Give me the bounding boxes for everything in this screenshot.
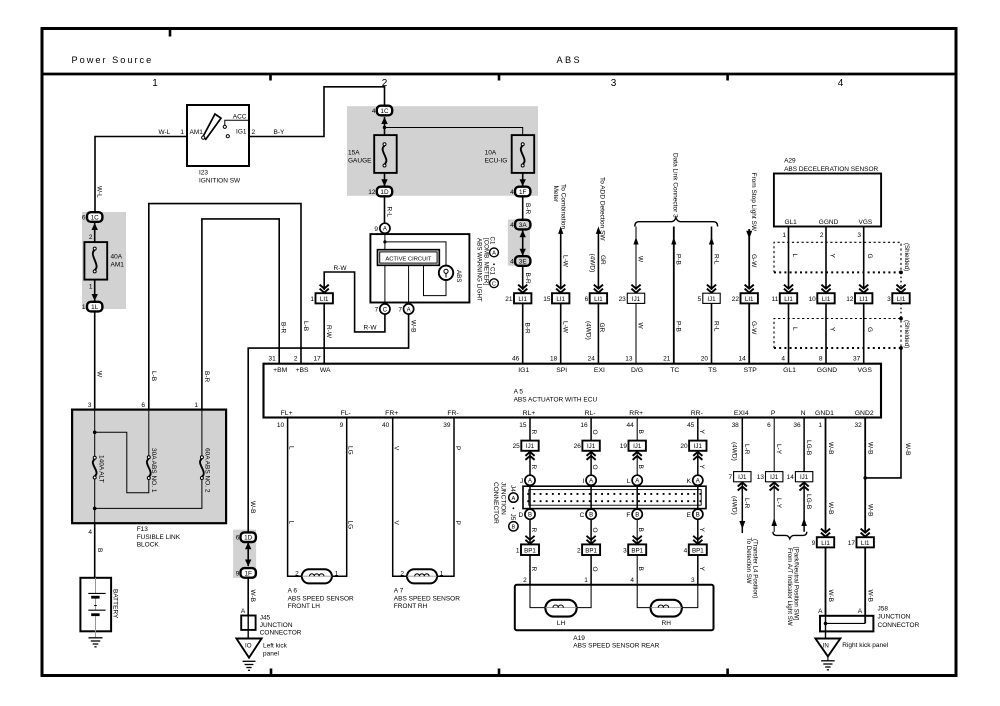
svg-text:W-B: W-B (867, 442, 874, 455)
svg-text:N: N (801, 410, 806, 417)
svg-text:RL-: RL- (585, 410, 596, 417)
svg-text:19: 19 (620, 443, 628, 450)
svg-text:4: 4 (88, 529, 92, 536)
arrow into 1L (92, 294, 98, 301)
arrows between 1D and 1F lower (245, 542, 251, 549)
svg-text:L-R: L-R (743, 444, 750, 455)
brace for Data Link Connector 3 (635, 218, 718, 227)
wire L LI1 to GL1 pin (788, 303, 790, 363)
svg-text:C: C (580, 512, 585, 519)
svg-text:A: A (589, 479, 593, 485)
wire W-B LI1 to J58 inner (864, 547, 866, 623)
circle connector A meter bottom (404, 304, 414, 314)
svg-text:LI1: LI1 (822, 296, 831, 303)
svg-text:P: P (454, 446, 461, 450)
bottom border ticks (271, 669, 728, 676)
svg-text:[Park/Neutral Position SW]: [Park/Neutral Position SW] (793, 547, 800, 621)
svg-text:GR: GR (599, 255, 606, 265)
svg-text:A: A (528, 479, 532, 485)
svg-text:RR+: RR+ (629, 410, 643, 417)
svg-text:4: 4 (781, 355, 785, 362)
svg-text:Y: Y (829, 327, 836, 332)
header divider line (42, 73, 956, 76)
connector 1D lower (241, 532, 256, 542)
svg-text:GGND: GGND (819, 219, 839, 226)
arrow into 1D lower (245, 532, 251, 539)
F13 internal wire pin3 to fuse 140A (94, 410, 96, 457)
svg-text:Y: Y (698, 430, 705, 435)
svg-text:ABS SPEED SENSOR: ABS SPEED SENSOR (288, 595, 354, 602)
svg-text:6: 6 (585, 296, 589, 303)
svg-text:8: 8 (819, 355, 823, 362)
ignition switch lever (203, 114, 221, 139)
svg-text:G: G (866, 327, 873, 332)
svg-text:BP1: BP1 (585, 547, 597, 554)
svg-text:3: 3 (611, 78, 617, 89)
connector 1D section2 (377, 187, 392, 197)
svg-text:GAUGE: GAUGE (348, 158, 372, 165)
svg-text:From A/T Indicator Light SW: From A/T Indicator Light SW (786, 548, 793, 626)
ground triangle IN right kick panel (815, 639, 840, 657)
svg-text:A: A (696, 479, 700, 485)
svg-text:FUSIBLE LINK: FUSIBLE LINK (137, 534, 181, 541)
wire LG FL- to sensor (332, 418, 347, 577)
svg-text:18: 18 (550, 355, 558, 362)
arrows between 3A and 3E (520, 230, 526, 237)
svg-text:A 7: A 7 (394, 588, 404, 595)
svg-text:R-L: R-L (386, 207, 393, 218)
svg-text:FRONT LH: FRONT LH (288, 603, 321, 610)
svg-text:B-R: B-R (524, 323, 531, 335)
chevron into LI1 section2 (320, 285, 329, 293)
svg-text:ABS ACTUATOR WITH ECU: ABS ACTUATOR WITH ECU (514, 397, 598, 404)
connector 1F lower (241, 568, 256, 578)
wire W IJ1 to D/G pin (635, 303, 637, 363)
svg-text:(4WD): (4WD) (585, 321, 592, 340)
svg-text:O: O (591, 465, 598, 470)
F13 fuse 60A ABS NO.2 (200, 456, 203, 459)
ground triangle IO left kick panel (236, 639, 261, 658)
svg-text:LH: LH (557, 620, 566, 627)
svg-text:LI1: LI1 (861, 540, 870, 547)
svg-text:To Detection SW: To Detection SW (745, 538, 752, 584)
svg-text:P: P (454, 521, 461, 525)
svg-text:J4: J4 (509, 485, 516, 492)
shield dashed box lower (774, 319, 901, 349)
svg-text:1: 1 (82, 304, 86, 311)
column GND2 wire W-B (864, 418, 866, 534)
svg-text:13: 13 (757, 474, 765, 481)
wire R-W LI1 to actuator WA (323, 303, 325, 363)
svg-text:BP1: BP1 (524, 547, 536, 554)
svg-text:FR+: FR+ (385, 410, 398, 417)
svg-text:L-Y: L-Y (775, 444, 782, 455)
svg-text:JUNCTION: JUNCTION (878, 614, 911, 621)
svg-text:38: 38 (732, 422, 740, 429)
svg-text:TS: TS (708, 367, 717, 374)
svg-text:VGS: VGS (859, 219, 873, 226)
svg-text:32: 32 (854, 422, 862, 429)
wire Y BP1 to rear sensor (697, 555, 699, 585)
svg-text:20: 20 (680, 443, 688, 450)
svg-text:+BS: +BS (295, 367, 309, 374)
svg-text:V: V (393, 521, 400, 526)
svg-text:K: K (687, 478, 692, 485)
svg-text:R-W: R-W (325, 325, 332, 339)
svg-text:L-B: L-B (150, 371, 157, 381)
column D/G: wire W (635, 227, 637, 291)
svg-text:C: C (492, 281, 496, 287)
svg-text:26: 26 (574, 443, 582, 450)
svg-text:A: A (512, 496, 516, 502)
svg-text:E: E (687, 512, 692, 519)
svg-text:D: D (518, 512, 523, 519)
svg-text:(Transfer L4 Position): (Transfer L4 Position) (752, 539, 759, 598)
meter wire active circuit to A bottom (408, 265, 410, 304)
svg-text:(Shielded): (Shielded) (903, 243, 910, 271)
wire 15A fuse to 1D (384, 173, 386, 186)
svg-text:7: 7 (728, 474, 732, 481)
svg-text:1: 1 (310, 296, 314, 303)
svg-text:BATTERY: BATTERY (112, 589, 119, 619)
svg-text:(4WD): (4WD) (731, 442, 738, 461)
svg-text:ABS SPEED SENSOR REAR: ABS SPEED SENSOR REAR (573, 643, 659, 650)
svg-text:J58: J58 (878, 606, 889, 613)
wire 10A fuse to 1F (522, 173, 524, 186)
svg-text:3: 3 (88, 402, 92, 409)
svg-text:A: A (241, 608, 246, 615)
svg-text:FL-: FL- (341, 410, 351, 417)
meter internal wire from A (384, 233, 386, 249)
svg-text:JUNCTION: JUNCTION (499, 482, 506, 515)
svg-text:L: L (791, 327, 798, 331)
gray shade behind GAUGE and ECU-IG fuses (347, 106, 538, 196)
wire O IJ1 to circle IA (590, 451, 592, 475)
svg-text:15: 15 (519, 422, 527, 429)
svg-text:RL+: RL+ (523, 410, 536, 417)
svg-text:RR-: RR- (691, 410, 703, 417)
svg-text:L-W: L-W (562, 255, 569, 268)
gray shade behind fuse AM1 column (82, 212, 126, 309)
svg-text:D/G: D/G (631, 367, 643, 374)
svg-text:IGNITION SW: IGNITION SW (199, 178, 241, 185)
svg-text:A: A (383, 227, 387, 233)
svg-text:GND1: GND1 (815, 410, 834, 417)
svg-text:J5: J5 (509, 514, 516, 521)
svg-text:B: B (635, 513, 639, 519)
svg-text:11: 11 (772, 296, 779, 303)
svg-text:1L: 1L (91, 304, 99, 311)
svg-text:12: 12 (368, 189, 376, 196)
svg-text:Left kick: Left kick (263, 643, 288, 650)
svg-text:Y: Y (829, 254, 836, 259)
svg-text:10A: 10A (485, 150, 497, 157)
shield drain wire W-B to GND2 column (865, 348, 901, 478)
circle connector A into meter (380, 223, 390, 233)
front RH sensor coil (407, 569, 437, 583)
ignition switch box I23 (187, 105, 249, 166)
svg-text:3A: 3A (519, 222, 528, 229)
F13 fuse 140A ALT (93, 456, 96, 459)
svg-text:LG-B: LG-B (805, 494, 812, 509)
svg-text:W-L: W-L (95, 186, 102, 198)
rear LH sensor wires (530, 585, 545, 608)
svg-text:From Stop Light SW: From Stop Light SW (750, 173, 757, 232)
wire GR down to LI1 (597, 233, 599, 289)
wire Y circle to BP1 (697, 519, 699, 544)
wire LG-B IJ1 down (803, 482, 805, 532)
svg-text:2: 2 (252, 129, 256, 136)
fusible link block F13 box (72, 410, 226, 524)
svg-text:10: 10 (277, 422, 285, 429)
svg-text:GGND: GGND (817, 367, 837, 374)
svg-text:G: G (866, 254, 873, 259)
column TS: wire R-L (711, 227, 713, 291)
svg-text:1: 1 (180, 129, 184, 136)
svg-text:1D: 1D (380, 189, 389, 196)
svg-text:IO: IO (245, 642, 252, 649)
header ticks on divider (271, 74, 728, 81)
svg-text:ABS: ABS (557, 55, 583, 65)
svg-text:A29: A29 (784, 158, 796, 165)
svg-text:W-B: W-B (827, 502, 834, 515)
connector 3A (515, 220, 530, 230)
svg-text:O: O (591, 567, 598, 572)
wire G-W LI1 to STP pin (748, 303, 750, 363)
svg-text:40: 40 (382, 422, 390, 429)
svg-text:IG1: IG1 (236, 129, 247, 136)
column IG1: chevron and box 21 LI1 (518, 285, 527, 293)
ignition ACC contact and stub (223, 125, 226, 128)
svg-text:I23: I23 (199, 170, 208, 177)
svg-text:1: 1 (818, 422, 822, 429)
svg-text:AM1: AM1 (190, 129, 204, 136)
svg-text:22: 22 (732, 296, 740, 303)
svg-text:1F: 1F (244, 570, 252, 577)
svg-text:GL1: GL1 (783, 367, 796, 374)
svg-text:36: 36 (793, 422, 801, 429)
F13 wire pin1 to fuse 60A (201, 410, 203, 456)
branch wire to 10A fuse (385, 128, 523, 136)
svg-text:R-W: R-W (334, 265, 348, 272)
svg-text:IJ1: IJ1 (526, 443, 535, 450)
column EXI4 wire L-R (741, 418, 743, 472)
svg-text:Right kick panel: Right kick panel (842, 642, 888, 649)
svg-text:9: 9 (812, 540, 816, 547)
junction connector strip J14 (523, 486, 706, 508)
svg-text:W: W (637, 323, 644, 330)
svg-text:A: A (492, 251, 496, 257)
svg-text:IJ1: IJ1 (633, 443, 642, 450)
svg-text:IG1: IG1 (518, 367, 529, 374)
svg-text:B: B (637, 567, 644, 571)
wire B circle to BP1 (636, 519, 638, 544)
svg-text:9: 9 (236, 570, 240, 577)
svg-text:+BM: +BM (273, 367, 288, 374)
svg-text:O: O (591, 430, 598, 435)
svg-text:B-R: B-R (203, 371, 210, 383)
svg-text:EXI: EXI (594, 367, 605, 374)
svg-text:FL+: FL+ (281, 410, 293, 417)
svg-text:14: 14 (738, 355, 746, 362)
wire Y LI1 to GGND pin (825, 303, 827, 363)
svg-text:C: C (383, 307, 388, 313)
svg-text:O: O (591, 528, 598, 533)
svg-text:ABS DECELERATION SENSOR: ABS DECELERATION SENSOR (784, 166, 878, 173)
wire P FR- to sensor (437, 418, 454, 577)
gray shade behind connectors 1D 1F (233, 530, 256, 578)
svg-text:LI1: LI1 (821, 540, 830, 547)
junction connector J58 box (820, 616, 873, 632)
svg-text:Meter: Meter (552, 186, 559, 203)
svg-text:ABS WARNING LIGHT: ABS WARNING LIGHT (475, 238, 482, 302)
F13 internal branch to fuse 30A bottom (95, 432, 149, 493)
battery box (80, 578, 111, 632)
svg-text:140A ALT: 140A ALT (98, 455, 105, 483)
svg-text:1C: 1C (380, 108, 389, 115)
svg-text:Data Link Connector 3: Data Link Connector 3 (671, 153, 678, 218)
svg-text:ACC: ACC (233, 114, 247, 121)
wire B-R 3E to LI1 (522, 266, 524, 290)
svg-text:Y: Y (698, 465, 705, 470)
wire GL1 sensor to LI1 (788, 227, 790, 290)
ACTIVE CIRCUIT box (378, 250, 440, 266)
wire R BP1 to rear sensor (529, 555, 531, 585)
svg-text:ECU-IG: ECU-IG (485, 158, 508, 165)
A29 ABS deceleration sensor box (774, 174, 881, 227)
svg-text:L: L (288, 446, 295, 450)
svg-text:4: 4 (510, 259, 514, 266)
svg-text:A: A (635, 479, 639, 485)
svg-text:LG: LG (347, 446, 354, 455)
fuse 10A ECU-IG box (512, 135, 535, 173)
svg-text:1: 1 (194, 402, 198, 409)
svg-text:Power Source: Power Source (72, 55, 154, 65)
battery cell plates (88, 592, 105, 594)
brace under P and N (773, 532, 807, 539)
connector 1L (87, 302, 102, 312)
svg-text:25: 25 (513, 443, 521, 450)
svg-text:R: R (530, 430, 537, 435)
svg-text:W-B: W-B (827, 442, 834, 455)
svg-text:ABS: ABS (455, 270, 462, 282)
rear RH sensor wires (637, 585, 650, 608)
svg-text:L-R: L-R (743, 498, 750, 509)
svg-text:W: W (637, 256, 644, 263)
svg-text:R: R (530, 528, 537, 533)
svg-text:IJ1: IJ1 (770, 474, 779, 481)
svg-text:(4WD): (4WD) (731, 496, 738, 515)
wire B IJ1 to circle LA (636, 451, 638, 475)
svg-text:37: 37 (853, 355, 861, 362)
ground symbol below IN (827, 656, 829, 660)
svg-text:16: 16 (580, 422, 588, 429)
shield dashed box upper (774, 242, 901, 272)
rear LH sensor coil (545, 600, 576, 617)
connector 1C section1 (87, 212, 102, 222)
wire W-B 1F to J45 (247, 578, 249, 616)
svg-text:LI1: LI1 (556, 296, 565, 303)
circle connector FB below strip (632, 509, 642, 519)
front LH sensor coil (302, 569, 332, 583)
svg-text:(Shielded): (Shielded) (903, 320, 910, 348)
svg-text:60A ABS NO. 2: 60A ABS NO. 2 (203, 448, 210, 493)
column O: wire actuator to IJ1 26 (590, 418, 592, 441)
svg-text:4: 4 (372, 108, 376, 115)
ABS warning bulb (439, 266, 453, 280)
column GND1 wire W-B (825, 418, 827, 534)
arrow into 1C bottom (381, 117, 387, 124)
svg-text:1: 1 (89, 284, 93, 291)
svg-text:6: 6 (767, 422, 771, 429)
svg-text:40A: 40A (111, 254, 123, 261)
svg-text:B-Y: B-Y (274, 129, 286, 136)
svg-text:A19: A19 (573, 635, 585, 642)
wire L-B fusible link to actuator +BS (149, 204, 301, 410)
svg-text:L: L (791, 254, 798, 258)
wire J58 to ground triangle IN (825, 616, 827, 639)
shield drain lower (900, 303, 902, 318)
svg-text:EXI4: EXI4 (734, 410, 749, 417)
svg-text:Y: Y (698, 567, 705, 572)
svg-text:G-W: G-W (750, 254, 757, 268)
F13 fuse 30A ABS NO.1 (147, 456, 150, 459)
svg-text:12: 12 (846, 296, 854, 303)
svg-text:1C: 1C (91, 214, 100, 221)
top border tick (169, 29, 172, 37)
column N wire LG-B (803, 418, 805, 472)
svg-text:LG-B: LG-B (805, 440, 812, 455)
svg-text:7: 7 (375, 306, 379, 313)
svg-text:2: 2 (89, 234, 93, 241)
svg-text:LI1: LI1 (784, 296, 793, 303)
svg-text:1F: 1F (519, 189, 527, 196)
svg-text:4: 4 (510, 222, 514, 229)
svg-text:ABS SPEED SENSOR: ABS SPEED SENSOR (394, 595, 460, 602)
svg-text:20: 20 (701, 355, 709, 362)
svg-text:IJ1: IJ1 (694, 443, 703, 450)
svg-text:CONNECTOR: CONNECTOR (492, 482, 499, 524)
battery internal lead (95, 578, 97, 632)
wire O BP1 to rear sensor (590, 555, 592, 585)
svg-text:B: B (696, 513, 700, 519)
svg-text:panel: panel (263, 651, 279, 658)
svg-text:LI1: LI1 (745, 296, 754, 303)
svg-text:2: 2 (294, 355, 298, 362)
svg-text:1: 1 (782, 232, 786, 239)
wire R-W C circle to LI1 (324, 272, 385, 332)
svg-text:IJ1: IJ1 (587, 443, 596, 450)
wire Y IJ1 to circle KA (697, 451, 699, 475)
svg-text:R-L: R-L (712, 254, 719, 265)
fuse 15A GAUGE box (374, 135, 397, 173)
svg-text:1: 1 (440, 570, 444, 577)
wire B-R 1F to 3A (522, 197, 524, 220)
wire L FL+ to sensor (288, 418, 302, 577)
svg-text:9: 9 (340, 422, 344, 429)
svg-text:A 5: A 5 (514, 388, 524, 395)
connector 1F section2 (515, 187, 530, 197)
meter wire active circuit to C (384, 265, 386, 304)
connector 1C section2 (377, 106, 392, 116)
svg-text:31: 31 (268, 355, 276, 362)
svg-text:SPI: SPI (556, 367, 567, 374)
svg-text:ACTIVE CIRCUIT: ACTIVE CIRCUIT (385, 256, 432, 262)
svg-text:4: 4 (838, 78, 844, 89)
svg-text:B: B (512, 525, 516, 531)
svg-text:BLOCK: BLOCK (137, 541, 160, 548)
svg-text:3: 3 (887, 296, 891, 303)
